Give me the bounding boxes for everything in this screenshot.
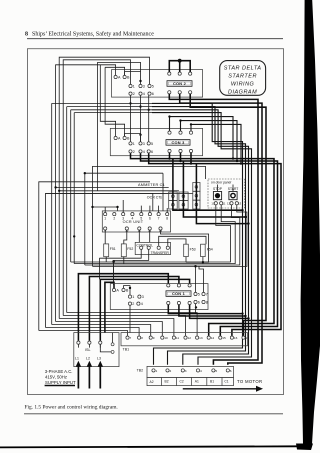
svg-text:415V, 50Hz: 415V, 50Hz (45, 375, 67, 380)
svg-text:9: 9 (153, 336, 155, 340)
svg-text:CON 2: CON 2 (173, 81, 187, 86)
svg-text:TB1: TB1 (123, 347, 130, 351)
svg-text:4: 4 (143, 92, 145, 96)
svg-text:7: 7 (158, 217, 160, 221)
svg-text:L3: L3 (97, 356, 101, 360)
svg-text:1: 1 (133, 84, 135, 88)
svg-text:2: 2 (113, 217, 115, 221)
svg-text:8: 8 (141, 336, 143, 340)
svg-text:WIRING: WIRING (231, 82, 255, 88)
svg-text:3: 3 (122, 217, 124, 221)
svg-text:15: 15 (222, 336, 226, 340)
svg-text:F52: F52 (127, 247, 133, 251)
svg-text:3: 3 (143, 142, 145, 146)
svg-text:OCR UNIT: OCR UNIT (123, 220, 144, 224)
svg-text:CONTROL: CONTROL (136, 243, 153, 247)
svg-text:OCR CTs: OCR CTs (147, 196, 162, 200)
svg-text:F54: F54 (207, 248, 213, 252)
svg-text:F53: F53 (190, 248, 196, 252)
svg-text:4: 4 (141, 302, 143, 306)
svg-text:8: 8 (25, 32, 28, 38)
svg-text:7: 7 (206, 292, 208, 296)
svg-text:C1: C1 (224, 380, 228, 384)
svg-text:C2: C2 (180, 380, 184, 384)
svg-text:TB2: TB2 (137, 368, 143, 372)
svg-text:11: 11 (223, 201, 226, 205)
svg-text:6: 6 (151, 150, 153, 154)
svg-text:3: 3 (142, 295, 144, 299)
svg-text:on door panel: on door panel (211, 180, 231, 184)
svg-text:1: 1 (133, 142, 135, 146)
svg-text:L1: L1 (75, 356, 79, 360)
svg-text:Ships’ Electrical Systems, Saf: Ships’ Electrical Systems, Safety and Ma… (32, 31, 154, 38)
svg-text:6: 6 (149, 217, 151, 221)
svg-text:12: 12 (227, 201, 231, 205)
svg-text:SUPPLY INPUT: SUPPLY INPUT (45, 380, 76, 385)
svg-text:1: 1 (132, 295, 134, 299)
svg-text:5: 5 (215, 369, 217, 373)
svg-text:B2: B2 (165, 380, 169, 384)
svg-text:12: 12 (188, 336, 192, 340)
svg-text:2: 2 (170, 369, 172, 373)
svg-text:13: 13 (199, 336, 203, 340)
svg-text:CON 3: CON 3 (172, 140, 186, 145)
svg-text:8: 8 (166, 217, 168, 221)
svg-text:L2: L2 (86, 356, 90, 360)
svg-text:5: 5 (140, 217, 142, 221)
svg-text:A2: A2 (150, 380, 154, 384)
svg-text:5: 5 (151, 142, 153, 146)
svg-text:5: 5 (198, 292, 200, 296)
svg-text:5: 5 (152, 84, 154, 88)
svg-text:3: 3 (143, 84, 145, 88)
svg-text:STAR DELTA: STAR DELTA (224, 66, 262, 72)
svg-text:10: 10 (164, 336, 168, 340)
svg-text:STARTER: STARTER (228, 74, 257, 80)
svg-text:TRANSFER: TRANSFER (151, 251, 170, 255)
svg-text:7: 7 (130, 336, 132, 340)
svg-text:13: 13 (238, 201, 242, 205)
svg-text:TO MOTOR: TO MOTOR (237, 379, 262, 384)
svg-text:6: 6 (198, 300, 200, 304)
svg-text:3: 3 (185, 369, 187, 373)
svg-text:AMMETER C1: AMMETER C1 (138, 183, 165, 187)
svg-text:8: 8 (206, 300, 208, 304)
svg-text:11: 11 (176, 336, 179, 340)
svg-text:A1: A1 (195, 380, 199, 384)
svg-text:6: 6 (152, 92, 154, 96)
svg-text:B1: B1 (210, 380, 214, 384)
svg-text:2: 2 (132, 302, 134, 306)
svg-text:17: 17 (246, 336, 250, 340)
svg-text:2: 2 (133, 92, 135, 96)
svg-text:4: 4 (200, 369, 202, 373)
svg-text:1: 1 (104, 217, 106, 221)
svg-text:DIAGRAM: DIAGRAM (228, 90, 257, 96)
svg-text:4: 4 (143, 150, 145, 154)
svg-text:CON 1: CON 1 (172, 291, 186, 296)
svg-text:F51: F51 (110, 247, 116, 251)
svg-text:ISL: ISL (85, 348, 91, 352)
svg-text:14: 14 (211, 336, 215, 340)
svg-text:3-PHASE A.C.: 3-PHASE A.C. (45, 369, 73, 374)
svg-text:Fig. 1.5 Power and control wir: Fig. 1.5 Power and control wiring diagra… (25, 405, 118, 411)
svg-text:4: 4 (131, 217, 133, 221)
svg-text:1: 1 (156, 369, 158, 373)
svg-text:6: 6 (230, 369, 232, 373)
svg-text:2: 2 (133, 150, 135, 154)
svg-text:16: 16 (234, 336, 238, 340)
svg-text:10: 10 (211, 201, 215, 205)
